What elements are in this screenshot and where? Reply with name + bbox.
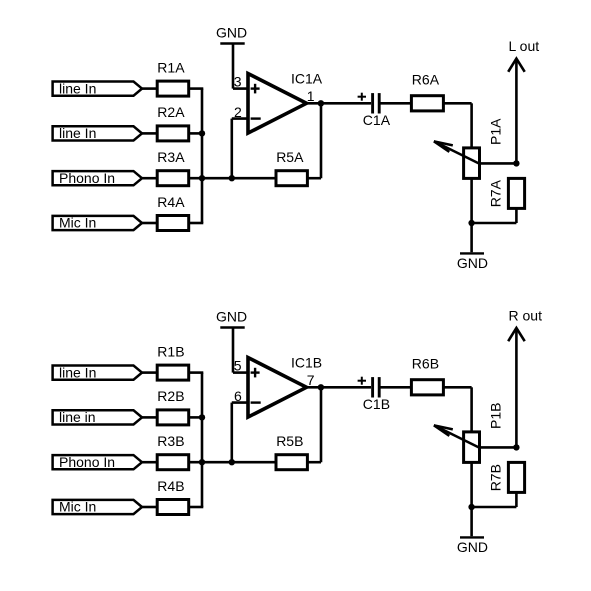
- svg-text:Mic In: Mic In: [59, 215, 96, 231]
- svg-text:2: 2: [234, 104, 242, 120]
- svg-text:line in: line in: [59, 409, 96, 425]
- svg-text:R4A: R4A: [157, 194, 185, 210]
- svg-text:IC1A: IC1A: [291, 71, 323, 87]
- svg-text:Phono In: Phono In: [59, 170, 115, 186]
- svg-text:6: 6: [234, 388, 242, 404]
- svg-text:R1B: R1B: [157, 343, 184, 359]
- svg-text:R2B: R2B: [157, 388, 184, 404]
- svg-text:R1A: R1A: [157, 59, 185, 75]
- svg-text:L out: L out: [509, 38, 540, 54]
- svg-text:R4B: R4B: [157, 478, 184, 494]
- svg-text:7: 7: [307, 372, 315, 388]
- svg-text:GND: GND: [216, 25, 247, 41]
- svg-text:IC1B: IC1B: [291, 355, 322, 371]
- svg-text:R5B: R5B: [276, 433, 303, 449]
- svg-text:C1A: C1A: [363, 112, 391, 128]
- svg-text:R7B: R7B: [488, 464, 504, 491]
- svg-text:P1B: P1B: [488, 403, 504, 429]
- svg-text:Mic In: Mic In: [59, 499, 96, 515]
- svg-text:R3A: R3A: [157, 149, 185, 165]
- svg-text:GND: GND: [457, 255, 488, 271]
- svg-text:1: 1: [307, 88, 315, 104]
- svg-text:line In: line In: [59, 364, 96, 380]
- svg-text:R3B: R3B: [157, 433, 184, 449]
- svg-text:Phono In: Phono In: [59, 454, 115, 470]
- svg-text:R2A: R2A: [157, 104, 185, 120]
- svg-text:GND: GND: [457, 539, 488, 555]
- svg-text:line In: line In: [59, 80, 96, 96]
- svg-text:line In: line In: [59, 125, 96, 141]
- svg-text:R6B: R6B: [412, 356, 439, 372]
- svg-text:GND: GND: [216, 309, 247, 325]
- svg-text:R5A: R5A: [276, 149, 304, 165]
- svg-text:3: 3: [234, 73, 242, 89]
- svg-text:R6A: R6A: [412, 72, 440, 88]
- svg-text:C1B: C1B: [363, 396, 390, 412]
- svg-text:P1A: P1A: [488, 118, 504, 145]
- svg-text:R7A: R7A: [488, 179, 504, 207]
- svg-text:5: 5: [234, 357, 242, 373]
- svg-text:R out: R out: [509, 308, 543, 324]
